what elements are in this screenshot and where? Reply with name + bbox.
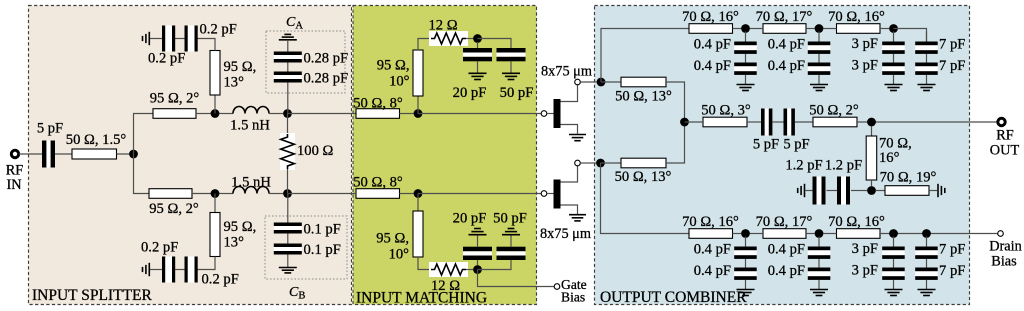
- transmission line 70 ohm 16deg (chain1 c): [828, 9, 885, 33]
- ground (stack2 bottom): [810, 290, 828, 296]
- wire beige to TL bottom: [288, 193, 357, 195]
- wire between CA caps: [287, 63, 289, 72]
- svg-text:1.2 pF: 1.2 pF: [785, 158, 822, 174]
- node T2: [283, 109, 292, 118]
- wire T1 to L1: [219, 113, 233, 115]
- transmission line 70 ohm 16deg (chain2 a): [682, 214, 739, 238]
- svg-text:Drain: Drain: [989, 239, 1022, 255]
- wire CA to node T2: [287, 83, 289, 114]
- svg-text:100 Ω: 100 Ω: [297, 143, 334, 159]
- wire bottom caps to ground: [150, 269, 162, 271]
- wire stack3 top from line: [893, 32, 895, 42]
- ground (1.2pF left): [798, 184, 805, 197]
- wire node M3 down to stub: [417, 194, 419, 212]
- transmission line 70 ohm 16deg (vertical): [866, 136, 912, 181]
- wire stack2 top to ground: [818, 75, 820, 84]
- wire node D1 to TL: [601, 81, 621, 83]
- svg-text:0.2 pF: 0.2 pF: [202, 272, 239, 288]
- wire TL to 5pF caps: [747, 121, 761, 123]
- capacitor 0.4 pF (stack1 bottom lower): [694, 263, 757, 280]
- wire L2 to node B2: [269, 193, 283, 195]
- wire TL2 to node T1: [196, 113, 211, 115]
- ground (stack2 top): [810, 85, 828, 91]
- wire stack3 top to ground: [893, 75, 895, 84]
- wire B1 to L2: [219, 193, 233, 195]
- wire 70ohm19 to ground: [929, 190, 937, 192]
- ground (stack4 top): [918, 85, 936, 91]
- port RF IN: [6, 150, 24, 193]
- svg-text:IN: IN: [6, 177, 21, 193]
- svg-text:1.5 nH: 1.5 nH: [230, 118, 270, 134]
- capacitor 7 pF (stack4 top lower): [915, 58, 965, 75]
- wire stack4 top between caps: [926, 54, 928, 63]
- node M1: [414, 109, 423, 118]
- wire R1 to node M2: [466, 38, 473, 40]
- capacitor 50 pF (bottom): [493, 211, 527, 261]
- svg-text:70 Ω, 17°: 70 Ω, 17°: [756, 214, 813, 230]
- svg-text:20 pF: 20 pF: [453, 85, 487, 101]
- wire TL to RF OUT: [857, 121, 998, 123]
- inductor 1.5 nH (top): [230, 107, 270, 134]
- transmission line 50 ohm 13deg (top): [615, 77, 672, 104]
- capacitor 7 pF (stack4 bottom upper): [915, 242, 965, 259]
- wire TL up to combine node: [666, 122, 685, 163]
- node B1: [211, 189, 220, 198]
- wire 5pF to TL: [795, 121, 813, 123]
- wire stack1 top from line: [745, 32, 747, 42]
- svg-text:3 pF: 3 pF: [852, 263, 878, 279]
- svg-text:1.5 nH: 1.5 nH: [231, 175, 271, 191]
- capacitor block CA box: [266, 31, 345, 93]
- svg-text:5 pF: 5 pF: [753, 137, 779, 153]
- capacitor 0.4 pF (stack1 bottom upper): [694, 242, 757, 259]
- svg-text:RF: RF: [996, 128, 1014, 144]
- wire split to top branch: [134, 114, 154, 155]
- wire chain2 c to drain bias: [880, 233, 998, 235]
- ground (70ohm19 right): [938, 184, 945, 197]
- svg-text:95 Ω,: 95 Ω,: [224, 219, 257, 235]
- wire between CB caps: [287, 234, 289, 244]
- transmission line 95 ohm 10deg (top stub): [377, 50, 423, 96]
- svg-text:50 Ω, 13°: 50 Ω, 13°: [615, 169, 672, 185]
- svg-text:50 Ω, 2°: 50 Ω, 2°: [809, 103, 859, 119]
- resistor 100 ohm: [280, 114, 334, 194]
- svg-text:13°: 13°: [224, 235, 245, 251]
- wire Q2 drain to node D2: [580, 162, 596, 164]
- transmission line 95 ohm 10deg (bottom stub): [376, 211, 423, 263]
- capacitor 0.1 pF (lower): [274, 242, 341, 258]
- node combine: [680, 118, 689, 127]
- port RF OUT: [990, 118, 1020, 158]
- wire between bottom 0.2pF caps: [175, 269, 185, 271]
- capacitor 7 pF (stack4 top upper): [915, 37, 965, 54]
- node input split: [129, 150, 138, 159]
- transmission line 95 ohm 13deg (bottom stub): [210, 213, 256, 257]
- svg-text:50 Ω, 8°: 50 Ω, 8°: [353, 175, 403, 191]
- capacitor 5 pF (series left): [753, 109, 779, 153]
- svg-text:70 Ω, 16°: 70 Ω, 16°: [682, 9, 739, 25]
- svg-text:0.4 pF: 0.4 pF: [694, 37, 731, 53]
- svg-text:0.2 pF: 0.2 pF: [148, 51, 185, 67]
- wire stack4 top to ground: [926, 75, 928, 84]
- wire stack1 top to ground: [745, 75, 747, 84]
- svg-text:50 Ω, 8°: 50 Ω, 8°: [353, 96, 403, 112]
- svg-text:10°: 10°: [389, 247, 410, 263]
- wire stack2 bottom between caps: [818, 259, 820, 268]
- wire CB cap to ground: [287, 255, 289, 268]
- capacitor 0.2 pF (top left of pair): [148, 26, 185, 67]
- wire stack3 top between caps: [893, 54, 895, 63]
- svg-text:70 Ω, 17°: 70 Ω, 17°: [756, 9, 813, 25]
- node D2: [596, 159, 605, 168]
- ground (bottom-left caps): [143, 263, 150, 276]
- wire CA ground to cap: [287, 40, 289, 52]
- capacitor 3 pF (stack3 top lower): [852, 58, 905, 75]
- wire stub bottom to caps: [198, 257, 216, 270]
- node C1a: [741, 24, 750, 33]
- transistor Q2 8x75um (bottom FET): [540, 160, 591, 242]
- svg-text:50 Ω, 1.5°: 50 Ω, 1.5°: [66, 132, 127, 148]
- svg-text:70 Ω, 16°: 70 Ω, 16°: [828, 214, 885, 230]
- wire between 5pF caps: [772, 121, 783, 123]
- transmission line 95 ohm 2deg (bottom): [149, 189, 199, 217]
- capacitor 0.4 pF (stack2 bottom upper): [768, 242, 831, 259]
- svg-text:10°: 10°: [389, 74, 410, 90]
- svg-text:0.4 pF: 0.4 pF: [768, 37, 805, 53]
- transmission line 50 ohm 1.5deg: [66, 132, 127, 159]
- inductor 1.5 nH (bottom): [231, 175, 271, 194]
- wire chain1 to 7pF stack: [894, 29, 927, 42]
- wire stub to R1: [418, 39, 431, 51]
- svg-text:7 pF: 7 pF: [939, 37, 965, 53]
- svg-text:50 pF: 50 pF: [493, 211, 527, 227]
- capacitor 0.4 pF (stack1 top upper): [694, 37, 757, 54]
- ground (CB bottom): [279, 268, 297, 273]
- wire stack3 bottom from line: [893, 237, 895, 247]
- capacitor 3 pF (stack3 bottom lower): [852, 263, 905, 280]
- wire node D2 down to bottom chain: [601, 163, 690, 234]
- svg-text:0.4 pF: 0.4 pF: [768, 242, 805, 258]
- wire vertical TL to node E: [871, 180, 873, 186]
- transmission line 70 ohm 16deg (chain1 a): [682, 9, 739, 33]
- wire stack1 top between caps: [745, 54, 747, 63]
- wire T2 into matching: [288, 113, 357, 115]
- capacitor 0.2 pF (bottom left of pair): [141, 240, 178, 283]
- wire split to bottom branch: [134, 154, 150, 194]
- svg-text:0.28 pF: 0.28 pF: [304, 51, 349, 67]
- svg-text:70 Ω, 16°: 70 Ω, 16°: [682, 214, 739, 230]
- capacitor 0.4 pF (stack2 top upper): [768, 37, 831, 54]
- svg-text:OUT: OUT: [990, 143, 1020, 159]
- capacitor 1.2 pF (right of pair): [825, 158, 862, 205]
- capacitor 0.4 pF (stack1 top lower): [694, 58, 757, 75]
- capacitor 3 pF (stack3 top upper): [852, 36, 905, 54]
- wire node B1 down to stub: [214, 194, 216, 213]
- wire chain2 b-c: [806, 233, 815, 235]
- svg-text:OUTPUT COMBINER: OUTPUT COMBINER: [600, 289, 747, 306]
- capacitor block CB box: [265, 216, 347, 279]
- svg-text:0.4 pF: 0.4 pF: [694, 263, 731, 279]
- svg-text:7 pF: 7 pF: [939, 263, 965, 279]
- wire chain1 c-end: [880, 28, 889, 30]
- capacitor 7 pF (stack4 bottom lower): [915, 263, 965, 280]
- transmission line 70 ohm 17deg (chain2 b): [756, 214, 813, 238]
- wire 1.2pF to ground: [806, 190, 813, 192]
- node M4: [473, 265, 482, 274]
- wire TL1 to split node: [117, 153, 134, 155]
- wire TL to node M1: [400, 113, 414, 115]
- wire chain1 a-b: [733, 28, 742, 30]
- transmission line 70 ohm 19deg: [880, 170, 937, 196]
- wire stack3 bottom to ground: [893, 280, 895, 289]
- wire stack4 bottom between caps: [926, 259, 928, 268]
- svg-text:95 Ω, 2°: 95 Ω, 2°: [149, 201, 199, 217]
- capacitor 5 pF (series right): [783, 109, 809, 153]
- ground (stack1 bottom): [737, 290, 755, 296]
- node E: [867, 186, 876, 195]
- wire node M1 up to stub: [417, 96, 419, 114]
- wire combine node to TL: [685, 121, 704, 123]
- transmission line 70 ohm 17deg (chain1 b): [756, 9, 813, 33]
- wire TL to node M3: [400, 193, 414, 195]
- ground (stack4 bottom): [918, 290, 936, 296]
- port Drain Bias: [989, 231, 1022, 270]
- svg-text:0.1 pF: 0.1 pF: [304, 222, 341, 238]
- wire node T1 up to stub: [214, 95, 216, 114]
- wire chain2 a-b: [733, 233, 742, 235]
- wire chain2 node to b: [750, 233, 763, 235]
- svg-text:7 pF: 7 pF: [939, 242, 965, 258]
- node B2: [283, 189, 292, 198]
- wire stub to R2: [418, 257, 431, 270]
- wire Q1 drain to node D1: [580, 81, 596, 83]
- svg-text:0.28 pF: 0.28 pF: [304, 71, 349, 87]
- svg-text:8x75 μm: 8x75 μm: [540, 226, 591, 242]
- capacitor 3 pF (stack3 bottom upper): [852, 241, 905, 259]
- svg-text:3 pF: 3 pF: [852, 241, 878, 257]
- svg-text:95 Ω,: 95 Ω,: [224, 59, 257, 75]
- svg-text:12 Ω: 12 Ω: [428, 18, 457, 34]
- svg-text:16°: 16°: [879, 150, 900, 166]
- node C1c: [889, 24, 898, 33]
- svg-text:0.2 pF: 0.2 pF: [141, 240, 178, 256]
- node T1: [211, 109, 220, 118]
- transmission line 50 ohm 3deg: [701, 103, 751, 127]
- svg-text:20 pF: 20 pF: [453, 211, 487, 227]
- wire node M3 to FET2 gate: [418, 193, 541, 195]
- wire chain2 node to c: [824, 233, 837, 235]
- transmission line 95 ohm 2deg (top): [150, 91, 200, 119]
- node M2: [473, 34, 482, 43]
- svg-text:50 Ω, 13°: 50 Ω, 13°: [615, 89, 672, 105]
- transmission line 70 ohm 16deg (chain2 c): [828, 214, 885, 238]
- svg-text:INPUT MATCHING: INPUT MATCHING: [356, 290, 487, 307]
- svg-text:0.4 pF: 0.4 pF: [694, 242, 731, 258]
- capacitor 20 pF (bottom): [453, 211, 492, 266]
- node C2d: [922, 229, 931, 238]
- svg-text:50 pF: 50 pF: [500, 85, 534, 101]
- svg-text:INPUT SPLITTER: INPUT SPLITTER: [32, 287, 153, 304]
- wire stack2 bottom from line: [818, 237, 820, 247]
- wire TL3 to node B1: [192, 193, 211, 195]
- ground (stack3 bottom): [885, 290, 903, 296]
- svg-text:70 Ω, 19°: 70 Ω, 19°: [880, 170, 937, 186]
- svg-text:1.2 pF: 1.2 pF: [825, 158, 862, 174]
- transistor Q1 8x75um (top FET): [541, 64, 592, 141]
- wire TL to combine node: [666, 82, 685, 122]
- svg-text:0.2 pF: 0.2 pF: [200, 22, 237, 38]
- wire between 1.2pF caps: [827, 190, 838, 192]
- wire node B2 to CB: [287, 194, 289, 223]
- wire node D2 to TL: [601, 162, 622, 164]
- wire stack2 top between caps: [818, 54, 820, 63]
- wire RF IN to C1: [19, 153, 42, 155]
- wire stub top to caps: [198, 39, 216, 51]
- svg-text:Bias: Bias: [991, 254, 1017, 270]
- svg-text:13°: 13°: [224, 75, 245, 91]
- wire stack4 bottom to ground: [926, 280, 928, 289]
- capacitor 0.1 pF (upper): [274, 222, 341, 238]
- svg-text:3 pF: 3 pF: [852, 58, 878, 74]
- capacitor 0.28 pF (lower): [274, 71, 348, 87]
- wire stack4 top from line: [926, 32, 928, 42]
- wire stack1 bottom from line: [745, 237, 747, 247]
- svg-text:50 Ω, 3°: 50 Ω, 3°: [701, 103, 751, 119]
- svg-text:0.1 pF: 0.1 pF: [304, 242, 341, 258]
- port Gate Bias: [554, 277, 586, 305]
- capacitor 5 pF (series input): [37, 121, 63, 168]
- svg-text:95 Ω,: 95 Ω,: [377, 58, 410, 74]
- ground (top-left caps): [143, 32, 150, 45]
- svg-text:70 Ω, 16°: 70 Ω, 16°: [828, 9, 885, 25]
- svg-text:Bias: Bias: [561, 290, 585, 305]
- node C2c: [889, 229, 898, 238]
- resistor 12 ohm (bottom): [429, 262, 468, 294]
- transmission line 50 ohm 8deg (top): [353, 96, 403, 119]
- wire chain1 node to c: [824, 28, 837, 30]
- transmission line 50 ohm 2deg: [809, 103, 859, 127]
- wire top caps to ground: [150, 38, 162, 40]
- wire L1 to node T2: [269, 113, 283, 115]
- svg-text:0.4 pF: 0.4 pF: [768, 58, 805, 74]
- ground (stack1 top): [737, 85, 755, 91]
- transmission line 95 ohm 13deg (top stub): [210, 51, 256, 96]
- capacitor 50 pF (top): [497, 48, 534, 101]
- capacitor 0.2 pF (top right of pair): [185, 22, 237, 52]
- transmission line 50 ohm 8deg (bottom): [353, 175, 403, 199]
- svg-text:5 pF: 5 pF: [37, 121, 63, 137]
- capacitor 0.4 pF (stack2 bottom lower): [768, 263, 831, 280]
- node M3: [414, 189, 423, 198]
- wire gate bias: [478, 270, 555, 287]
- resistor 12 ohm (top): [428, 18, 468, 47]
- node D1: [597, 78, 606, 87]
- wire stack3 bottom between caps: [893, 259, 895, 268]
- node C1b: [815, 24, 824, 33]
- svg-text:0.4 pF: 0.4 pF: [694, 58, 731, 74]
- wire chain1 b-c: [806, 28, 815, 30]
- svg-text:95 Ω,: 95 Ω,: [376, 231, 409, 247]
- wire chain1 node to b: [750, 28, 763, 30]
- wire stack4 bottom from line: [926, 237, 928, 247]
- wire node M2 to 50pF: [478, 39, 512, 49]
- wire node M1 to FET1 gate: [418, 113, 541, 115]
- svg-text:8x75 μm: 8x75 μm: [541, 64, 592, 80]
- wire between top 0.2pF caps: [175, 38, 185, 40]
- capacitor 20 pF (top): [453, 42, 492, 101]
- ground (stack3 top): [885, 85, 903, 91]
- capacitor 1.2 pF (left of pair): [785, 158, 825, 205]
- wire C1 to TL1: [55, 153, 72, 155]
- wire node M4 to 50pF bottom: [478, 260, 512, 270]
- svg-text:95 Ω, 2°: 95 Ω, 2°: [150, 91, 200, 107]
- wire node E to 1.2pF: [851, 190, 867, 192]
- wire node D1 up to top chain: [601, 29, 689, 83]
- input splitter region: [29, 6, 352, 305]
- capacitor 0.2 pF (bottom right of pair): [185, 257, 239, 288]
- capacitor 0.28 pF (upper): [274, 51, 348, 67]
- ground (CA top): [279, 34, 297, 39]
- wire output node down: [871, 126, 873, 136]
- wire stack1 bottom to ground: [745, 280, 747, 289]
- input matching region: [353, 6, 537, 305]
- svg-text:7 pF: 7 pF: [939, 58, 965, 74]
- wire R2 to node M4: [466, 269, 473, 271]
- node C2b: [815, 229, 824, 238]
- svg-text:0.4 pF: 0.4 pF: [768, 263, 805, 279]
- svg-text:5 pF: 5 pF: [783, 137, 809, 153]
- node output: [867, 118, 876, 127]
- svg-text:3 pF: 3 pF: [852, 36, 878, 52]
- capacitor 0.4 pF (stack2 top lower): [768, 58, 831, 75]
- wire stack2 top from line: [818, 32, 820, 42]
- wire stack1 bottom between caps: [745, 259, 747, 268]
- wire stack2 bottom to ground: [818, 280, 820, 289]
- transmission line 50 ohm 13deg (bottom): [615, 158, 672, 185]
- wire node E to 70ohm19: [876, 190, 885, 192]
- output combiner region: [595, 6, 970, 305]
- node C2a: [741, 229, 750, 238]
